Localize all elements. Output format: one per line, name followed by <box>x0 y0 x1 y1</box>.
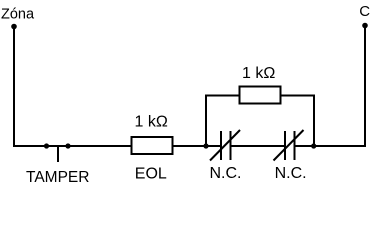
wire bottom main: N.C.1 to N.C.2 <box>231 145 286 147</box>
wire bottom main: left segment to EOL resistor <box>13 145 131 147</box>
switch TAMPER dot left <box>44 143 49 148</box>
contact N.C. 1 slash <box>210 130 240 161</box>
switch TAMPER dot right <box>65 143 70 148</box>
wire bottom main: EOL to N.C.1 <box>173 145 221 147</box>
svg-text:1 kΩ: 1 kΩ <box>135 113 168 130</box>
svg-text:TAMPER: TAMPER <box>26 169 89 186</box>
contact N.C. 1 bar left <box>220 131 222 160</box>
wire parallel branch right vertical <box>313 95 315 147</box>
svg-text:1 kΩ: 1 kΩ <box>242 65 275 82</box>
svg-text:N.C.: N.C. <box>210 165 242 182</box>
contact N.C. 1 bar right <box>230 131 232 160</box>
terminal dot C <box>362 23 368 29</box>
wire parallel branch left vertical <box>205 95 207 147</box>
wire bottom main: N.C.2 to right corner <box>295 145 367 147</box>
wire parallel branch top horizontal <box>205 95 315 97</box>
svg-text:N.C.: N.C. <box>275 165 307 182</box>
resistor EOL body <box>132 137 173 154</box>
node junction dot left of parallel branch <box>203 143 208 148</box>
svg-text:Zóna: Zóna <box>1 7 35 23</box>
contact N.C. 2 slash <box>274 130 304 161</box>
svg-text:EOL: EOL <box>135 165 167 182</box>
wire right vertical (C down) <box>364 26 366 146</box>
contact N.C. 2 bar right <box>294 131 296 160</box>
contact N.C. 2 bar left <box>284 131 286 160</box>
switch TAMPER actuator tick <box>57 146 59 162</box>
wire left vertical (Zóna down) <box>13 27 15 146</box>
svg-text:C: C <box>359 3 370 20</box>
terminal dot Zóna <box>11 24 17 30</box>
resistor 1 kΩ body (parallel branch) <box>240 87 281 104</box>
node junction dot right of parallel branch <box>311 143 316 148</box>
